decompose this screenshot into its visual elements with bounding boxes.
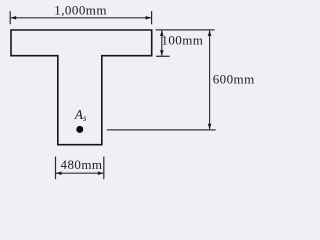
- dimension 100mm: top arrowhead: [160, 30, 164, 36]
- rebar dot As: [76, 126, 83, 133]
- dimension 100mm: bottom arrowhead: [160, 50, 164, 56]
- dimension 480mm: dimension line: [56, 172, 104, 174]
- svg-text:480mm: 480mm: [61, 157, 103, 172]
- dimension 1,000mm: dimension line: [11, 17, 152, 19]
- dimension 480mm: left extension tick: [55, 157, 57, 180]
- dimension 480mm: right arrowhead: [98, 171, 104, 175]
- dimension 1,000mm: right arrowhead: [146, 16, 152, 20]
- dimension 480mm: left arrowhead: [56, 171, 62, 175]
- dimension 100mm: bottom extension tick: [156, 55, 170, 57]
- dimension 1,000mm: right extension tick: [151, 11, 153, 24]
- dimension 600mm: bottom extension line: [107, 129, 216, 131]
- svg-text:600mm: 600mm: [213, 72, 255, 87]
- dimension 600mm: bottom arrowhead: [208, 124, 212, 130]
- dimension 1,000mm: left extension tick: [9, 11, 11, 24]
- dimension 100mm: dimension line: [161, 30, 163, 55]
- dimension 1,000mm: left arrowhead: [11, 16, 17, 20]
- svg-text:100mm: 100mm: [161, 33, 203, 48]
- dimension 600mm: top arrowhead: [208, 30, 212, 36]
- dimension 100mm: top extension line (shared with 600mm): [156, 29, 215, 31]
- dimension 480mm: right extension tick: [103, 157, 105, 180]
- svg-text:1,000mm: 1,000mm: [54, 2, 107, 17]
- dimension 600mm: dimension line: [209, 30, 211, 129]
- T-beam section outline: [11, 30, 152, 145]
